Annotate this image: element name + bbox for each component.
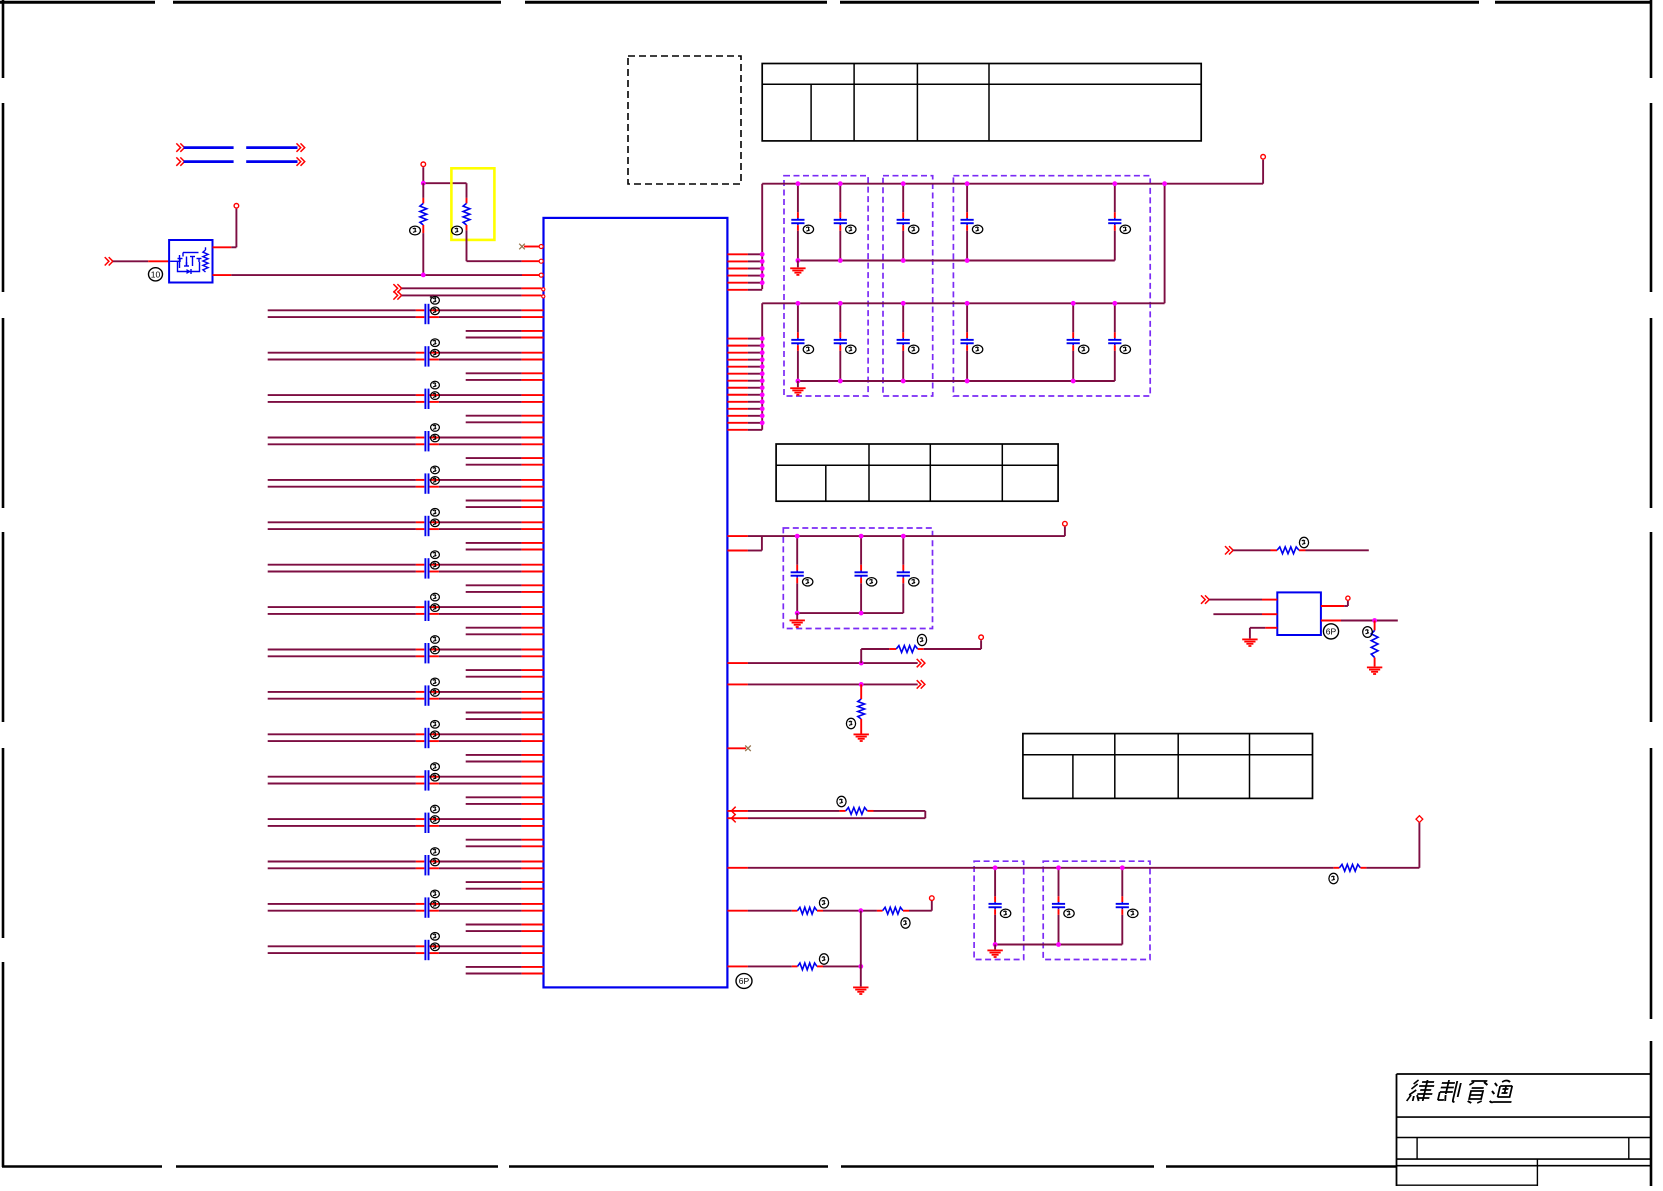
junction J6 <box>858 964 863 969</box>
C44 reference designator <box>803 578 813 586</box>
junctions bus row1 top <box>796 181 1118 186</box>
capacitor C9 and C10 series pair <box>425 473 428 493</box>
C7 reference designator <box>431 424 440 432</box>
svg-text:6P: 6P <box>1326 627 1337 637</box>
C33 reference designator <box>803 225 813 233</box>
C45 reference designator <box>866 578 876 586</box>
C1 reference designator <box>431 297 440 305</box>
wire data pair 10 lower <box>268 698 544 700</box>
capacitor C13 and C14 series pair <box>425 558 428 578</box>
C11 reference designator <box>431 509 440 517</box>
wire power net VDD4 with resistor R6 <box>727 822 1419 871</box>
decoupling bank box 2 <box>883 176 933 396</box>
ground U2 <box>1242 638 1257 640</box>
capacitor C31 and C32 series pair <box>425 940 428 960</box>
wire data pair 15 lower <box>268 910 544 912</box>
svg-text:6P: 6P <box>739 976 750 986</box>
wire stub pair 6 lower <box>466 549 544 551</box>
wire stub pair 4 lower <box>466 464 544 466</box>
wire stub pair 7 upper <box>466 584 544 586</box>
capacitor C29 and C30 series pair <box>425 897 428 917</box>
R10 reference designator <box>1299 537 1308 547</box>
U1 right pin group 2 <box>727 339 762 430</box>
capacitor C15 and C16 series pair <box>425 601 428 621</box>
dashed annotation box <box>628 56 741 184</box>
wire bank3 ground bus <box>797 612 903 614</box>
wire data pair 11 upper <box>268 733 544 735</box>
terminal post T6 <box>1416 816 1423 823</box>
R11 reference designator <box>1363 627 1373 638</box>
capacitor C48 <box>1052 868 1065 945</box>
ground bank3 <box>790 613 805 627</box>
title text WISTRON 緯創資通 <box>1407 1080 1517 1103</box>
C10 reference designator <box>431 477 440 485</box>
wire data pair 5 lower <box>268 486 544 488</box>
C40 reference designator <box>909 345 919 353</box>
C24 reference designator <box>431 773 440 781</box>
wire stub pair 2 upper <box>466 372 544 374</box>
no-connect pin <box>519 244 539 250</box>
wire data pair 3 lower <box>268 401 544 403</box>
R9 reference designator <box>819 954 828 964</box>
junctions bus row2 top <box>796 301 1118 306</box>
resistor R2 <box>463 183 470 261</box>
wire data pair 15 upper <box>268 903 544 905</box>
C18 reference designator <box>431 646 440 654</box>
decoupling bank box 6 <box>1043 861 1150 959</box>
C29 reference designator <box>431 890 440 898</box>
wire data pair 14 lower <box>268 867 544 869</box>
wire stub pair 3 upper <box>466 415 544 417</box>
wire stub pair 14 lower <box>466 888 544 890</box>
wire net FB2 with resistor R9 <box>727 963 860 970</box>
terminal post T3 <box>1261 155 1266 160</box>
terminal post T8 <box>1346 596 1350 600</box>
U1 no-connect pin right <box>727 746 750 752</box>
capacitor C23 and C24 series pair <box>425 770 428 790</box>
wire Q1 source to U1 <box>213 274 542 276</box>
C27 reference designator <box>431 848 440 856</box>
C5 reference designator <box>431 381 440 389</box>
junctions bank row1 bottom <box>796 258 970 263</box>
wire data pair 16 lower <box>268 952 544 954</box>
capacitor C43 <box>1108 303 1121 381</box>
ground R11 <box>1367 666 1382 668</box>
wire stub pair 9 lower <box>466 676 544 678</box>
capacitor C11 and C12 series pair <box>425 516 428 536</box>
C6 reference designator <box>431 392 440 400</box>
wire stub pair 11 lower <box>466 761 544 763</box>
capacitor C41 <box>961 303 974 381</box>
wire data pair 13 lower <box>268 825 544 827</box>
wire stub pair 16 lower <box>466 973 544 975</box>
capacitor C35 <box>897 184 910 261</box>
junctions bank row2 bottom <box>796 379 1076 384</box>
wire stub pair 4 upper <box>466 457 544 459</box>
wire bank row2 ground bus <box>798 380 1115 382</box>
capacitor C5 and C6 series pair <box>425 389 428 409</box>
ground bank row2 <box>790 381 805 395</box>
wire stub pair 14 upper <box>466 881 544 883</box>
C8 reference designator <box>431 434 440 442</box>
wire U2 input 1 <box>1201 595 1277 603</box>
C42 reference designator <box>1079 345 1089 353</box>
capacitor C34 <box>834 184 847 261</box>
transistor Q1 dual MOSFET <box>169 240 212 283</box>
wire data pair 2 lower <box>268 359 544 361</box>
C48 reference designator <box>1064 909 1074 917</box>
wire stub pair 3 lower <box>466 421 544 423</box>
wire data pair 8 upper <box>268 606 544 608</box>
wire stub pair 13 lower <box>466 845 544 847</box>
capacitor C1 and C2 series pair <box>425 304 428 324</box>
C19 reference designator <box>431 678 440 686</box>
decoupling bank box 1 <box>784 176 868 396</box>
resistor R4 pulldown <box>858 684 865 733</box>
C30 reference designator <box>431 901 440 909</box>
wire data pair 11 lower <box>268 740 544 742</box>
wire stub pair 1 upper <box>466 330 544 332</box>
C41 reference designator <box>972 345 982 353</box>
wire net CLK with resistor R10 <box>1225 546 1369 554</box>
capacitor C27 and C28 series pair <box>425 855 428 875</box>
wire data pair 1 upper <box>268 309 544 311</box>
IC U1 <box>544 218 728 988</box>
wire U2 ground pin <box>1250 628 1277 639</box>
wire net OUT2 <box>727 680 925 688</box>
R4 reference designator <box>846 718 855 728</box>
wire data pair 7 upper <box>268 564 544 566</box>
wire stub pair 7 lower <box>466 591 544 593</box>
capacitor C42 <box>1067 303 1080 381</box>
wire stub pair 15 upper <box>466 924 544 926</box>
R3 reference designator <box>917 634 926 645</box>
wire stub pair 1 lower <box>466 337 544 339</box>
wire stub pair 11 upper <box>466 754 544 756</box>
wire stub pair 6 upper <box>466 542 544 544</box>
wire data pair 6 upper <box>268 521 544 523</box>
decoupling bank box 5 <box>974 861 1024 959</box>
wire J5 to ground <box>860 911 862 987</box>
wire stub pair 8 upper <box>466 627 544 629</box>
junctions pin group 2 <box>760 336 765 425</box>
C43 reference designator <box>1120 345 1130 353</box>
wire data pair 10 upper <box>268 691 544 693</box>
wire data pair 12 upper <box>268 776 544 778</box>
C26 reference designator <box>431 816 440 824</box>
wire data pair 16 upper <box>268 945 544 947</box>
C12 reference designator <box>431 519 440 527</box>
capacitor C39 <box>834 303 847 381</box>
junctions VDD4 bank top <box>993 865 1125 870</box>
wire data pair 4 upper <box>268 437 544 439</box>
wire stub pair 12 upper <box>466 796 544 798</box>
wire stub pair 8 lower <box>466 633 544 635</box>
capacitor C45 <box>855 536 868 613</box>
net B tick mark <box>430 295 436 298</box>
Q1 reference designator <box>149 268 163 281</box>
revision table 2 <box>776 444 1058 501</box>
C31 reference designator <box>431 933 440 941</box>
wire T2 to R1/R2 <box>423 167 466 183</box>
wire data pair 3 upper <box>268 394 544 396</box>
U1 pin bubbles left top <box>539 245 545 299</box>
C4 reference designator <box>431 349 440 357</box>
C14 reference designator <box>431 561 440 569</box>
capacitor C3 and C4 series pair <box>425 346 428 366</box>
wire gate input net <box>105 257 169 265</box>
decoupling bank box 3 <box>953 176 1150 396</box>
revision table 1 <box>762 64 1201 141</box>
C38 reference designator <box>803 345 813 353</box>
highlight box <box>451 168 494 240</box>
junction bus row1 <box>1162 181 1167 186</box>
U1 pin VDD3 wire <box>727 527 1065 537</box>
wire U2 output 1 <box>1321 601 1348 606</box>
C25 reference designator <box>431 805 440 813</box>
capacitor C40 <box>897 303 910 381</box>
wire data pair 14 upper <box>268 861 544 863</box>
wire power bus row1 <box>762 160 1263 289</box>
wire data pair 12 lower <box>268 783 544 785</box>
C22 reference designator <box>431 731 440 739</box>
wire data pair 7 lower <box>268 571 544 573</box>
wire Q1 drain to terminal <box>213 209 237 248</box>
capacitor C7 and C8 series pair <box>425 431 428 451</box>
capacitor C44 <box>791 536 804 613</box>
wire power bus row2 <box>762 184 1164 430</box>
wire net OUT1 with resistor R3 <box>727 659 925 667</box>
junction J5 <box>858 908 863 913</box>
wire stub pair 10 lower <box>466 718 544 720</box>
junctions bank4 bottom <box>993 942 1061 947</box>
wire data pair 8 lower <box>268 613 544 615</box>
resistor R1 <box>420 183 427 275</box>
terminal post T5 <box>979 635 984 640</box>
C2 reference designator <box>431 307 440 315</box>
U1 pin 6P label <box>736 974 752 989</box>
R6 reference designator <box>1329 873 1338 883</box>
C46 reference designator <box>909 578 919 586</box>
wire stub pair 15 lower <box>466 930 544 932</box>
terminal post T2 <box>421 162 426 167</box>
wire data pair 4 lower <box>268 443 544 445</box>
wire loop with resistor R5 <box>727 807 925 823</box>
junctions bank3 top <box>795 534 906 539</box>
wire stub pair 9 upper <box>466 669 544 671</box>
wire stub pair 12 lower <box>466 803 544 805</box>
wire stub pair 13 upper <box>466 839 544 841</box>
capacitor C19 and C20 series pair <box>425 685 428 705</box>
wire input net B <box>393 291 541 299</box>
junction J2 <box>421 273 426 278</box>
capacitor C46 <box>897 536 910 613</box>
decoupling bank box 4 <box>783 528 932 629</box>
R5 reference designator <box>837 796 846 806</box>
wire data pair 9 upper <box>268 649 544 651</box>
capacitor C37 <box>1108 184 1121 261</box>
terminal post T4 <box>1063 521 1068 526</box>
wire input net A <box>393 284 541 292</box>
ground R4 <box>854 733 869 735</box>
title block <box>1397 1074 1651 1186</box>
resistor R11 pulldown <box>1371 621 1378 667</box>
junction J1 <box>421 181 426 186</box>
C49 reference designator <box>1128 909 1138 917</box>
C39 reference designator <box>846 345 856 353</box>
capacitor C17 and C18 series pair <box>425 643 428 663</box>
R8 reference designator <box>901 918 910 928</box>
junctions bank3 bottom <box>795 611 864 616</box>
wire stub pair 5 lower <box>466 506 544 508</box>
C20 reference designator <box>431 689 440 697</box>
U1 right pin group 1 <box>727 254 762 289</box>
wire U2 output 2 <box>1321 620 1398 622</box>
C21 reference designator <box>431 721 440 729</box>
C15 reference designator <box>431 593 440 601</box>
C23 reference designator <box>431 763 440 771</box>
wire bank row1 ground bus <box>798 260 1115 262</box>
wire stub pair 10 upper <box>466 712 544 714</box>
capacitor C25 and C26 series pair <box>425 813 428 833</box>
wire bank4 ground bus <box>995 944 1122 946</box>
wire R2 to U1 <box>467 260 542 262</box>
R1 reference designator <box>410 226 421 235</box>
C13 reference designator <box>431 551 440 559</box>
C32 reference designator <box>431 943 440 951</box>
terminal post T7 <box>930 896 935 901</box>
ground bank4 <box>987 945 1002 958</box>
C17 reference designator <box>431 636 440 644</box>
capacitor C36 <box>961 184 974 261</box>
wire stub pair 16 upper <box>466 966 544 968</box>
junctions pin group 1 <box>760 252 765 285</box>
C37 reference designator <box>1120 225 1130 233</box>
capacitor C33 <box>791 184 804 261</box>
capacitor C21 and C22 series pair <box>425 728 428 748</box>
C3 reference designator <box>431 339 440 347</box>
capacitor C49 <box>1116 868 1129 945</box>
ground bank row1 <box>790 261 805 275</box>
R7 reference designator <box>819 898 828 908</box>
bus segment B1 upper <box>176 143 304 151</box>
junction J7 <box>1372 618 1377 623</box>
wire stub pair 5 upper <box>466 500 544 502</box>
wire data pair 9 lower <box>268 655 544 657</box>
wire net FB with resistors R7 R8 <box>727 901 931 914</box>
bus segment B1 lower <box>176 157 304 165</box>
ground bottom <box>853 986 868 988</box>
revision table 3 <box>1023 734 1313 799</box>
C28 reference designator <box>431 858 440 866</box>
junction J4 <box>859 682 864 687</box>
junction J3 <box>859 661 864 666</box>
capacitor C38 <box>791 303 804 381</box>
wire data pair 6 lower <box>268 528 544 530</box>
C34 reference designator <box>846 225 856 233</box>
wire data pair 2 upper <box>268 352 544 354</box>
C35 reference designator <box>909 225 919 233</box>
wire data pair 1 lower <box>268 316 544 318</box>
terminal post T1 <box>234 204 239 209</box>
IC U2 <box>1277 592 1321 635</box>
wire stub pair 2 lower <box>466 379 544 381</box>
capacitor C47 <box>989 868 1002 945</box>
svg-text:10: 10 <box>151 269 161 279</box>
C36 reference designator <box>972 225 982 233</box>
resistor R3 <box>861 640 981 663</box>
C16 reference designator <box>431 604 440 612</box>
wire data pair 5 upper <box>268 479 544 481</box>
wire U2 input 2 <box>1213 613 1277 615</box>
U2 pin 6P label <box>1323 624 1338 639</box>
U1 pin VDD3b wire <box>727 536 762 550</box>
C47 reference designator <box>1000 909 1010 917</box>
R2 reference designator <box>452 226 463 235</box>
wire data pair 13 upper <box>268 818 544 820</box>
C9 reference designator <box>431 466 440 474</box>
